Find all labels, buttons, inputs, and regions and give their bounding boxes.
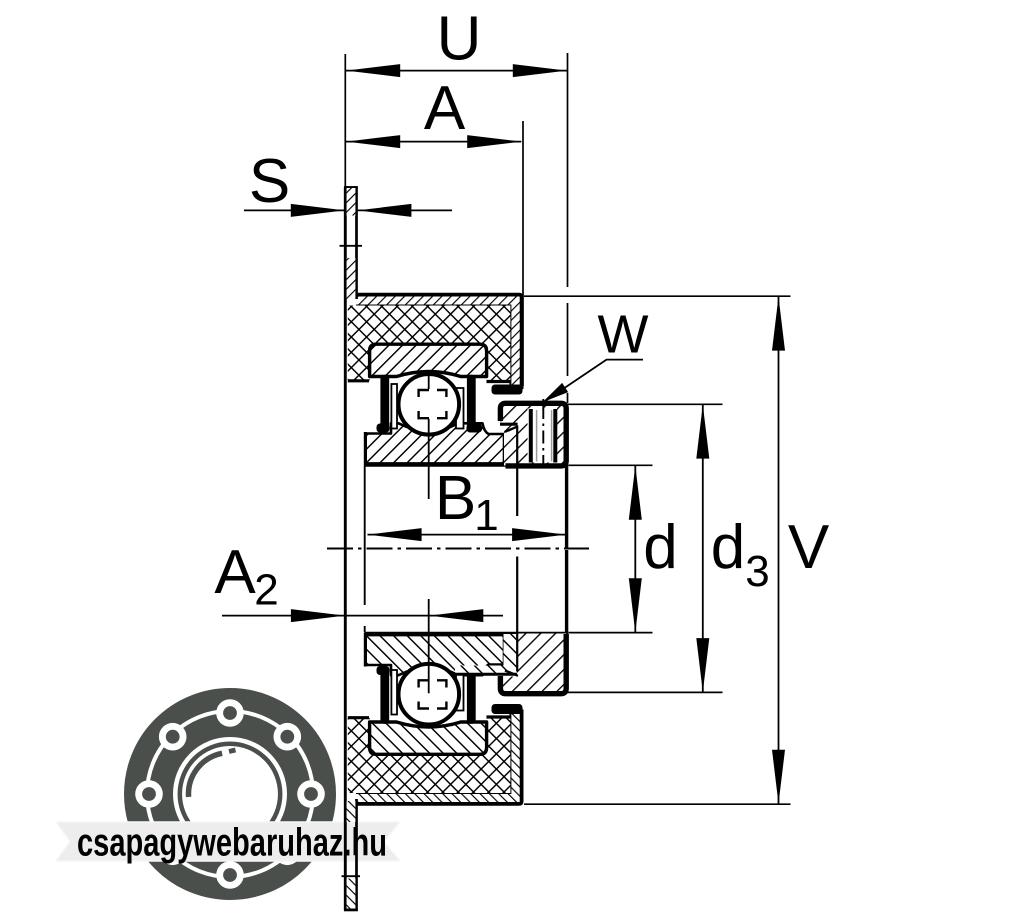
flange break tick bottom [342, 875, 361, 877]
logo outer ring [135, 699, 326, 890]
top bearing half [348, 295, 567, 549]
svg-text:csapagywebaruhaz.hu: csapagywebaruhaz.hu [77, 822, 387, 865]
svg-text:d: d [643, 513, 677, 582]
top collar body [501, 405, 567, 466]
svg-text:A: A [214, 538, 256, 607]
top collar outline [500, 403, 566, 466]
logo shine arc [189, 753, 223, 797]
svg-text:1: 1 [474, 491, 498, 540]
logo balls white holes [216, 699, 244, 727]
dimension A [346, 141, 521, 143]
dimension S [244, 209, 452, 211]
svg-text:3: 3 [745, 547, 769, 596]
left bore line with gap [364, 466, 366, 632]
bottom sleeve face line [455, 673, 517, 676]
svg-text:V: V [788, 513, 830, 582]
dimension A2 [222, 615, 503, 617]
flange bottom cap [344, 908, 358, 911]
flange plate right face [355, 187, 358, 910]
logo shine tick [229, 750, 236, 752]
flange plate left face [344, 187, 347, 910]
top ball centerline [428, 375, 430, 499]
svg-text:U: U [437, 5, 482, 74]
svg-text:W: W [598, 305, 649, 365]
joint line between bearings [516, 463, 518, 634]
logo cage ring [161, 725, 299, 863]
dimension B1 [368, 534, 567, 536]
main centerline [327, 548, 589, 550]
extension line d3 bottom [568, 691, 723, 693]
top collar slot edges [531, 409, 556, 463]
logo balls [223, 706, 237, 720]
extension line V top [524, 295, 791, 297]
top collar joint line [516, 426, 518, 464]
flange break tick top [340, 245, 363, 247]
bottom collar outline [500, 634, 566, 694]
watermark banner ribbon [56, 822, 400, 861]
bottom collar body [501, 634, 567, 694]
bottom ball centerline [428, 599, 430, 693]
extension line A right [522, 121, 524, 386]
extension line d3 top [567, 403, 723, 405]
dimension U [346, 70, 567, 72]
svg-text:S: S [249, 147, 290, 216]
extension line flange top [344, 54, 346, 186]
logo inner ring [180, 744, 280, 844]
bottom bearing half (mirror) [348, 550, 567, 804]
top collar slot axis [542, 399, 544, 472]
extension line d bottom [569, 632, 653, 634]
bottom collar joint line [516, 634, 518, 672]
extension line V bottom [524, 803, 791, 805]
top collar slot inner lines [537, 410, 552, 462]
dimension d [634, 466, 636, 633]
svg-text:B: B [435, 464, 476, 533]
dimension W leader [546, 360, 644, 401]
bottom sleeve hatch [455, 634, 517, 674]
bottom collar recess tick [505, 671, 518, 676]
extension line U right [567, 53, 569, 403]
svg-text:2: 2 [254, 566, 278, 615]
flange hatch segments [347, 188, 356, 299]
extension line d top [569, 464, 653, 466]
svg-text:d: d [711, 513, 745, 582]
top collar recess white [505, 425, 517, 463]
svg-text:A: A [424, 74, 466, 143]
dimension d3 [702, 404, 704, 692]
top collar recess tick [505, 426, 518, 432]
flange top cap [344, 186, 358, 188]
top collar recess ceiling [500, 423, 518, 426]
dimension V [778, 296, 780, 804]
top collar slot [528, 409, 558, 463]
